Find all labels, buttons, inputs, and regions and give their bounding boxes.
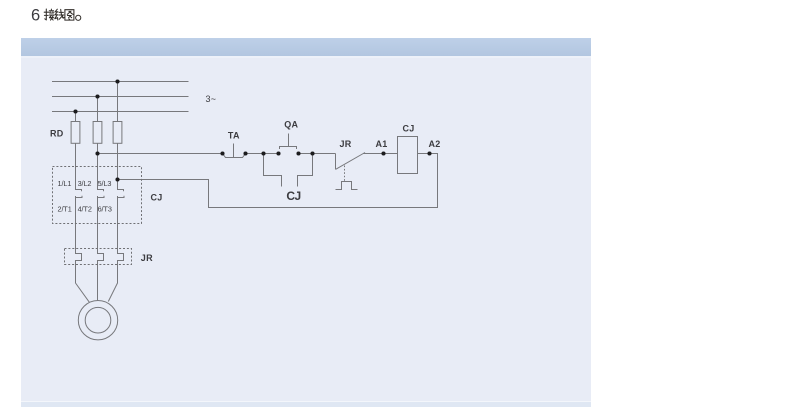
svg-text:JR: JR xyxy=(141,253,153,263)
wire pole2 fuse to contact xyxy=(98,143,104,191)
node A2 xyxy=(427,151,431,155)
svg-text:CJ: CJ xyxy=(151,192,163,202)
svg-text:CJ: CJ xyxy=(403,123,415,133)
title text "6 接线图。" xyxy=(31,6,81,24)
pushbutton QA (start, NO) bridge xyxy=(280,134,297,150)
svg-text:JR: JR xyxy=(340,139,352,149)
node L2 tap xyxy=(95,94,99,98)
svg-text:6/T3: 6/T3 xyxy=(98,204,112,213)
wire pole3 drop to fuse xyxy=(117,82,119,122)
。 xyxy=(76,15,81,20)
wire control rail from L2 tap to TA xyxy=(98,153,223,155)
thermal relay JR heater element symbol xyxy=(336,182,358,190)
node rail at L2 fuse output xyxy=(95,151,99,155)
svg-text:5/L3: 5/L3 xyxy=(98,179,112,188)
svg-text:QA: QA xyxy=(284,119,298,129)
contactor CJ main contact pole1 lower xyxy=(76,196,90,302)
node 5/L3 tap xyxy=(115,177,119,181)
node QA left xyxy=(276,151,280,155)
svg-text:CJ: CJ xyxy=(286,189,300,203)
wire pole1 drop to fuse xyxy=(75,112,77,122)
contactor CJ main contact pole3 lower xyxy=(108,196,124,302)
dashed box contactor CJ main contacts xyxy=(53,167,142,224)
fuse RD pole1 xyxy=(71,122,80,144)
svg-text:2/T1: 2/T1 xyxy=(58,204,72,213)
node A1 xyxy=(381,151,385,155)
wire pole3 fuse to contact xyxy=(118,143,124,191)
motor outer circle xyxy=(78,301,117,340)
svg-text:1/L1: 1/L1 xyxy=(58,179,72,188)
node TA right xyxy=(243,151,247,155)
svg-text:RD: RD xyxy=(50,128,64,138)
wire pole1 fuse to contact xyxy=(76,143,82,191)
wire pole2 drop to fuse xyxy=(97,97,99,122)
线 xyxy=(55,9,58,20)
thermal relay JR contact (NC) xyxy=(336,153,398,170)
coil CJ rectangle xyxy=(398,137,418,174)
node L1 tap xyxy=(115,79,119,83)
fuse RD pole2 xyxy=(93,122,102,144)
svg-text:3/L2: 3/L2 xyxy=(78,179,92,188)
motor inner circle xyxy=(85,307,111,333)
wire rail QA to JR contact xyxy=(299,153,336,155)
svg-text:6: 6 xyxy=(31,6,40,24)
node QA right xyxy=(296,151,300,155)
wire phase line L2 xyxy=(52,96,189,98)
接 xyxy=(44,9,48,20)
contactor CJ main contact pole2 lower xyxy=(98,196,105,301)
wire rail TA to branch node xyxy=(246,153,279,155)
thermal relay JR linkage (dotted) xyxy=(344,166,346,182)
wire coil to A2 corner and down xyxy=(118,154,438,208)
svg-text:3~: 3~ xyxy=(206,94,217,104)
wire phase line L1 xyxy=(52,81,189,83)
pushbutton TA (stop, NC) bridge xyxy=(223,144,246,158)
wire phase line L3 xyxy=(52,111,189,113)
contactor CJ auxiliary contact (self-hold branch) xyxy=(264,154,313,187)
svg-text:4/T2: 4/T2 xyxy=(78,204,92,213)
svg-text:A2: A2 xyxy=(429,139,441,149)
svg-text:TA: TA xyxy=(228,131,240,141)
node L3 tap xyxy=(73,109,77,113)
node TA left xyxy=(220,151,224,155)
svg-text:A1: A1 xyxy=(376,139,388,149)
fuse RD pole3 xyxy=(113,122,122,144)
node branch left xyxy=(261,151,265,155)
图 xyxy=(65,10,74,20)
node branch right xyxy=(310,151,314,155)
dashed box thermal relay JR heaters xyxy=(65,249,132,265)
